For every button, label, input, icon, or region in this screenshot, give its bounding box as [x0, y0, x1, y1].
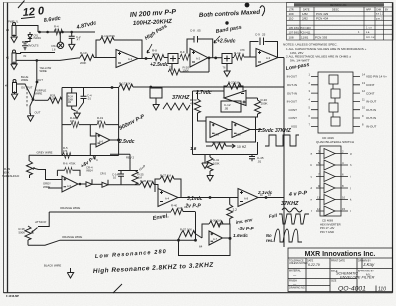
svg-text:500K: 500K: [19, 230, 26, 234]
svg-text:F-1016-MP: F-1016-MP: [6, 294, 19, 298]
svg-text:ORANGE WIRE: ORANGE WIRE: [62, 235, 82, 239]
svg-text:R-36: R-36: [210, 219, 217, 223]
svg-text:2.2: 2.2: [233, 208, 238, 212]
jack J2 (output): [13, 80, 17, 93]
svg-text:200K: 200K: [80, 61, 86, 65]
svg-text:OUT-IN: OUT-IN: [287, 83, 297, 87]
resistor R19: [97, 122, 105, 128]
E1 loop box left: [57, 170, 80, 176]
U3 left pin stubs: [311, 77, 318, 127]
svg-text:#2: #2: [5, 84, 9, 88]
svg-text:37KHZ: 37KHZ: [281, 201, 299, 207]
svg-text:R-10: R-10: [80, 51, 87, 55]
svg-text:THRESHOLD: THRESHOLD: [2, 174, 19, 178]
svg-text:2.5vdc: 2.5vdc: [118, 139, 135, 145]
svg-text:2.5vdc: 2.5vdc: [257, 128, 274, 134]
ground under C10: [155, 98, 157, 102]
svg-text:1.6: 1.6: [190, 146, 197, 151]
wire E3 riser: [195, 212, 197, 240]
IC U3 CD4016 quad bilateral switch: [311, 72, 360, 133]
svg-text:PCN 429: PCN 429: [316, 12, 329, 16]
svg-text:107 9/81 PCN 411: 107 9/81 PCN 411: [289, 30, 311, 34]
waveform full resonance pulses: [279, 214, 309, 224]
svg-text:1M: 1M: [217, 219, 222, 223]
wire orange 2: [28, 240, 196, 245]
resistor R28: [35, 99, 48, 101]
svg-text:25: 25: [262, 33, 266, 37]
capacitor C2: [69, 32, 75, 43]
svg-text:m.b. t.w: m.b. t.w: [366, 36, 375, 39]
wire 10HZ riser: [110, 154, 130, 170]
border frame: right line: [392, 3, 394, 293]
svg-text:10K: 10K: [97, 120, 102, 123]
resistor R29 with arrow: [206, 145, 212, 147]
wire switch to ground: [30, 100, 33, 115]
svg-text:9VOLTS: 9VOLTS: [28, 44, 39, 48]
LED DS1: [59, 32, 61, 42]
svg-text:.05: .05: [224, 107, 229, 111]
svg-text:470K: 470K: [152, 52, 158, 56]
svg-text:.01: .01: [257, 160, 262, 164]
waveform no resonance humps: [274, 229, 302, 242]
svg-text:3,1vdc: 3,1vdc: [187, 196, 203, 202]
svg-text:PIN 7 GND: PIN 7 GND: [320, 230, 334, 234]
svg-text:64: 64: [199, 245, 203, 249]
wire E1 out: [78, 183, 86, 185]
op-amp A3: [256, 49, 278, 67]
svg-text:p.m. 2: p.m. 2: [376, 17, 383, 20]
ground under C2: [69, 42, 75, 50]
svg-text:DESC: DESC: [332, 9, 339, 12]
svg-text:A-5: A-5: [67, 184, 72, 188]
svg-text:1. c.s: 1. c.s: [366, 27, 373, 30]
svg-text:SIZE: SIZE: [331, 280, 337, 283]
svg-text:2/82: 2/82: [302, 17, 308, 21]
op-amp L2: [210, 122, 228, 138]
svg-text:6-22-79: 6-22-79: [308, 263, 320, 267]
svg-text:IN-OUT: IN-OUT: [366, 125, 376, 129]
svg-text:110: 110: [289, 17, 294, 21]
svg-text:DS1: DS1: [52, 44, 58, 48]
wire pot to E1: [39, 170, 63, 180]
ground under J2: [11, 92, 17, 100]
ink dot 2: [225, 21, 228, 24]
wire E1 + input: [48, 187, 62, 189]
svg-text:10K: 10K: [178, 207, 183, 210]
resistor R30 vertical: [255, 100, 261, 114]
wire LFO bottom rail: [193, 142, 258, 155]
resistor R37: [178, 234, 181, 241]
svg-text:VSS: VSS: [291, 125, 297, 129]
op-amp E2: [158, 189, 178, 207]
svg-text:BLACK WIRE: BLACK WIRE: [44, 264, 61, 268]
feedback loop L1: [224, 86, 243, 98]
wire main input bus: [78, 57, 80, 59]
svg-text:R-17: R-17: [119, 82, 126, 86]
svg-text:U2a: U2a: [214, 133, 219, 137]
svg-text:MATERIAL: MATERIAL: [289, 270, 301, 273]
svg-text:37KHZ: 37KHZ: [275, 128, 292, 134]
dashed link J2: [26, 88, 28, 108]
wire: [164, 57, 168, 59]
ink dot: [245, 3, 250, 8]
wire resonance feedback loop: [179, 238, 231, 255]
wire L1 out: [246, 98, 258, 100]
svg-text:2.2K: 2.2K: [50, 97, 55, 100]
svg-text:IN-OUT: IN-OUT: [287, 75, 297, 79]
wire LFO top rail: [193, 91, 225, 155]
pot R39 threshold: [28, 155, 30, 161]
feedback loop wire A1: [96, 40, 142, 59]
svg-text:47K: 47K: [63, 150, 68, 153]
svg-text:C-9: C-9: [255, 33, 260, 37]
wire input upper: [16, 53, 55, 54]
svg-text:R-9: R-9: [180, 50, 185, 54]
svg-text:QO-4001: QO-4001: [338, 286, 366, 293]
title block grid lines: [288, 258, 393, 286]
wire power rail: [16, 26, 95, 33]
svg-text:OUT: OUT: [37, 78, 43, 82]
wire buffer loop bottom: [62, 155, 119, 157]
capacitor C4: [79, 88, 87, 110]
ground at switch: [27, 113, 33, 121]
pot R38 attack: [25, 226, 31, 240]
waveform triangle wave: [163, 103, 190, 110]
svg-text:DRAWING NO.: DRAWING NO.: [289, 287, 306, 290]
svg-text:.05: .05: [197, 29, 202, 33]
wire to E2: [108, 185, 158, 193]
op-amp E3: [209, 231, 223, 245]
stub below loop: [94, 156, 96, 160]
svg-text:REV 2: REV 2: [126, 156, 135, 160]
resistor R9: [178, 58, 180, 60]
svg-text:OUT: OUT: [35, 111, 41, 115]
svg-text:CR-5: CR-5: [100, 173, 106, 176]
svg-text:+2.5vdc: +2.5vdc: [150, 62, 169, 68]
resistor R10: [80, 55, 94, 61]
waveform square wave: [265, 135, 299, 146]
svg-text:+2.5vdc: +2.5vdc: [217, 39, 236, 45]
resistor R5 on grey wire: [63, 152, 71, 158]
resistor R23: [227, 83, 241, 89]
svg-text:R-6: R-6: [63, 162, 68, 166]
svg-text:1/82: 1/82: [302, 12, 308, 16]
wire vertical right bus: [283, 58, 285, 248]
resistor R36: [209, 221, 223, 227]
svg-text:109: 109: [289, 12, 294, 16]
U3 switch cells: [329, 75, 338, 84]
svg-text:-3v P-P: -3v P-P: [238, 226, 255, 231]
op-amp A1: [116, 50, 138, 68]
wire orange 1: [49, 211, 195, 214]
title block outline: [288, 248, 393, 292]
resistor R13: [100, 37, 114, 43]
svg-text:IN-OUT: IN-OUT: [366, 100, 376, 104]
wire A3 out to vertical bus: [278, 57, 284, 59]
svg-text:470K: 470K: [69, 162, 76, 166]
ground under R41: [209, 171, 211, 173]
border frame: top line: [4, 2, 393, 4]
svg-text:PRINT DATE: PRINT DATE: [331, 260, 345, 263]
wire: [94, 57, 116, 59]
rail caps top: [118, 170, 138, 172]
svg-text:1.6vdc: 1.6vdc: [233, 233, 248, 239]
svg-text:100K: 100K: [213, 161, 220, 165]
op-amp B1: [96, 133, 110, 147]
wire yellow drop: [36, 60, 38, 82]
svg-text:22K: 22K: [147, 179, 152, 183]
wire grey threshold: [29, 154, 62, 156]
junction dots power rail: [39, 31, 41, 33]
svg-text:J.Kay: J.Kay: [362, 262, 375, 267]
svg-text:ORANGE WIRE: ORANGE WIRE: [60, 206, 80, 210]
ground under T6: [226, 64, 228, 69]
op-amp L1 (points left): [224, 91, 246, 106]
wire A2 out: [208, 57, 222, 59]
small sine squiggle: [282, 208, 302, 212]
notes text: [283, 43, 367, 63]
svg-text:OUT-IN: OUT-IN: [287, 91, 297, 95]
corner pen mark: [18, 1, 25, 9]
jack J1 (input): [12, 50, 16, 63]
svg-text:47K: 47K: [190, 102, 195, 106]
svg-text:470K: 470K: [108, 34, 115, 38]
svg-text:res.: res.: [266, 238, 273, 243]
stray slash: [113, 284, 122, 293]
svg-text:#3: #3: [6, 28, 10, 32]
svg-text:10 HZ: 10 HZ: [237, 145, 246, 149]
title block: [288, 248, 393, 292]
svg-text:IN914: IN914: [86, 169, 93, 172]
box schmitt pair: [206, 117, 256, 142]
svg-text:2.7vdc: 2.7vdc: [195, 90, 212, 96]
svg-text:PCN 434: PCN 434: [316, 17, 329, 21]
svg-text:a.s 1.2: a.s 1.2: [376, 13, 384, 16]
svg-text:R-40: R-40: [171, 203, 178, 207]
svg-text:CONT: CONT: [289, 116, 298, 120]
svg-text:10K: 10K: [126, 82, 131, 86]
svg-text:CONT: CONT: [366, 91, 375, 95]
resistor R41 vertical: [209, 155, 211, 157]
box C10 on lower bus: [150, 88, 162, 98]
wire E3 out: [223, 237, 231, 239]
svg-text:1M: 1M: [68, 101, 71, 104]
svg-text:R-26: R-26: [140, 179, 147, 183]
svg-text:CHK: CHK: [376, 9, 382, 12]
svg-text:MXR Innovations Inc.: MXR Innovations Inc.: [305, 251, 376, 258]
svg-text:15: 15: [342, 207, 346, 211]
resistor R27: [160, 176, 174, 182]
svg-text:GREY WIRE: GREY WIRE: [37, 151, 53, 155]
svg-text:110: 110: [378, 287, 386, 293]
trimpot T5: [168, 54, 178, 64]
wire: [92, 183, 102, 185]
svg-text:R-37: R-37: [180, 228, 187, 232]
svg-text:10: 10: [113, 176, 117, 180]
op-amp F1: [238, 189, 258, 207]
wire input main: [16, 58, 78, 60]
svg-text:47K: 47K: [219, 141, 224, 145]
U3 internal links: [333, 84, 335, 117]
ground under J1: [11, 62, 17, 70]
svg-text:WIRE: WIRE: [21, 78, 28, 82]
svg-text:11: 11: [317, 196, 320, 200]
svg-text:VDD PIN 14 V+: VDD PIN 14 V+: [366, 75, 387, 79]
jack J3 (power): [12, 23, 16, 36]
border frame: left double line: [4, 2, 8, 293]
svg-text:IN: IN: [24, 54, 27, 58]
svg-text:C-8: C-8: [190, 29, 195, 33]
svg-text:WIRE: WIRE: [40, 69, 47, 73]
resistor R25 vertical: [132, 171, 138, 185]
svg-text:47K: 47K: [240, 48, 245, 52]
feedback loop wire A2: [187, 39, 213, 58]
svg-text:PWR.JL: PWR.JL: [8, 20, 19, 24]
svg-text:A-2: A-2: [196, 57, 201, 61]
svg-text:2.1vdc: 2.1vdc: [257, 190, 273, 195]
ground under box/cap: [74, 111, 80, 119]
wire A1 out: [138, 58, 152, 60]
resistor R40: [171, 209, 183, 215]
capacitor C8: [194, 36, 198, 43]
svg-text:OUT-IN: OUT-IN: [366, 116, 376, 120]
svg-text:10K: 10K: [70, 120, 75, 123]
wire B1 inputs: [90, 125, 96, 156]
wire buffer loop top: [62, 124, 119, 126]
svg-text:#1: #1: [6, 56, 10, 60]
svg-text:IN-OUT: IN-OUT: [287, 100, 297, 104]
svg-text:.47: .47: [76, 38, 80, 42]
switch SW1: [33, 82, 37, 100]
feedback loop E3: [202, 224, 230, 239]
wire B1 out: [110, 139, 119, 141]
resistor R18: [71, 122, 79, 128]
svg-text:UNLESS NOTED: UNLESS NOTED: [289, 262, 308, 265]
svg-text:R-29: R-29: [212, 141, 219, 145]
box C12: [221, 101, 241, 112]
svg-text:A-7: A-7: [213, 237, 218, 241]
feedback loop wire A3: [250, 42, 278, 58]
svg-text:OUT-IN: OUT-IN: [366, 108, 376, 112]
U4 inverter triangles: [324, 149, 335, 159]
svg-text:1K: 1K: [55, 29, 58, 32]
wire buffer right vertical: [118, 88, 120, 156]
resistor R14: [232, 57, 234, 59]
svg-text:U2b: U2b: [236, 133, 241, 137]
svg-text:105 4/81 PCN 403: 105 4/81 PCN 403: [289, 26, 312, 30]
svg-text:11/81: 11/81: [301, 36, 309, 40]
svg-text:1M: 1M: [235, 81, 240, 85]
wire E2 out: [178, 197, 238, 199]
svg-text:.01: .01: [87, 97, 91, 101]
svg-text:R-13: R-13: [101, 34, 108, 38]
revision log table: [287, 3, 394, 41]
op-amp A2: [190, 49, 208, 68]
border frame: bottom line: [4, 292, 393, 294]
wire F1 out: [258, 197, 284, 199]
svg-text:NOTES: UNLESS OTHERWISE SPEC.: NOTES: UNLESS OTHERWISE SPEC.: [283, 43, 338, 47]
svg-text:ATTACK: ATTACK: [34, 220, 47, 224]
svg-text:WIRE: WIRE: [43, 185, 50, 189]
svg-text:100K: 100K: [183, 69, 189, 73]
ground black wire: [70, 268, 72, 271]
svg-text:QUAD BILATERAL SWITCH: QUAD BILATERAL SWITCH: [316, 140, 354, 144]
resistor R8: [152, 55, 164, 61]
svg-text:BY: BY: [385, 9, 389, 12]
svg-text:10K: 10K: [187, 228, 192, 232]
svg-text:A-3: A-3: [266, 56, 271, 60]
svg-text:IN4001: IN4001: [34, 38, 42, 40]
svg-text:14: 14: [317, 207, 321, 211]
svg-text:A-1: A-1: [128, 57, 133, 61]
svg-text:108: 108: [289, 36, 294, 40]
svg-text:A-6: A-6: [99, 140, 104, 144]
diode CR1: [25, 32, 32, 42]
svg-text:PCN 393: PCN 393: [315, 36, 328, 40]
svg-text:s.a.: s.a.: [366, 31, 370, 34]
trimpot T6: [222, 54, 232, 64]
op-amp L3: [232, 122, 250, 138]
svg-text:1M: 1M: [167, 174, 172, 178]
U3 body outline: [318, 72, 353, 133]
svg-text:.2v P-P: .2v P-P: [184, 204, 201, 210]
resistor R20: [168, 69, 180, 75]
resistor R4: [54, 29, 62, 35]
trimpot box R24: [67, 93, 77, 106]
svg-text:10: 10: [342, 196, 346, 200]
svg-text:APP: APP: [366, 9, 371, 12]
resistor R17 on lower bus: [119, 84, 133, 90]
wire T5 lower to feedback: [172, 58, 209, 72]
IC U4 CD4069 hex inverter: [316, 146, 348, 216]
ground under J3: [11, 35, 17, 43]
resistor R6 feedback: [65, 167, 73, 173]
svg-text:CONT: CONT: [366, 83, 375, 87]
op-amp E1: [62, 176, 78, 192]
U4 output stubs: [335, 154, 348, 212]
svg-text:ENVELOPE FILTER: ENVELOPE FILTER: [340, 275, 375, 279]
wire pot riser: [38, 212, 49, 227]
resistor R48 vertical: [229, 198, 231, 205]
wire J2 pin: [17, 84, 34, 100]
ground below LFO box: [204, 155, 206, 161]
wire L2-L3: [228, 129, 262, 131]
svg-text:WIRE: WIRE: [35, 92, 42, 96]
capacitor C14: [118, 171, 124, 185]
capacitor C9: [260, 38, 264, 46]
svg-text:37KHZ: 37KHZ: [172, 95, 190, 101]
svg-text:OUTPUT: OUTPUT: [21, 86, 33, 90]
wire buffer left vertical: [61, 88, 63, 156]
resistor R26: [140, 182, 154, 188]
svg-text:A-4: A-4: [165, 197, 170, 201]
capacitor C45: [249, 155, 255, 162]
svg-text:A-8: A-8: [244, 197, 249, 201]
diode D25: [102, 180, 108, 188]
U3 right pin stubs: [353, 77, 360, 127]
svg-text:100K: 100K: [261, 102, 268, 106]
wire lower return bus: [62, 86, 284, 89]
U4 body outline: [320, 146, 341, 216]
U4 input stubs: [316, 154, 324, 212]
svg-text:R-23: R-23: [228, 81, 235, 85]
feedback loop E2: [155, 179, 181, 198]
battery BT1: [22, 42, 28, 51]
diode D24: [86, 179, 92, 187]
resistor R22 vertical: [197, 91, 199, 99]
svg-text:R-27: R-27: [160, 174, 167, 178]
svg-text:CONT: CONT: [289, 108, 298, 112]
